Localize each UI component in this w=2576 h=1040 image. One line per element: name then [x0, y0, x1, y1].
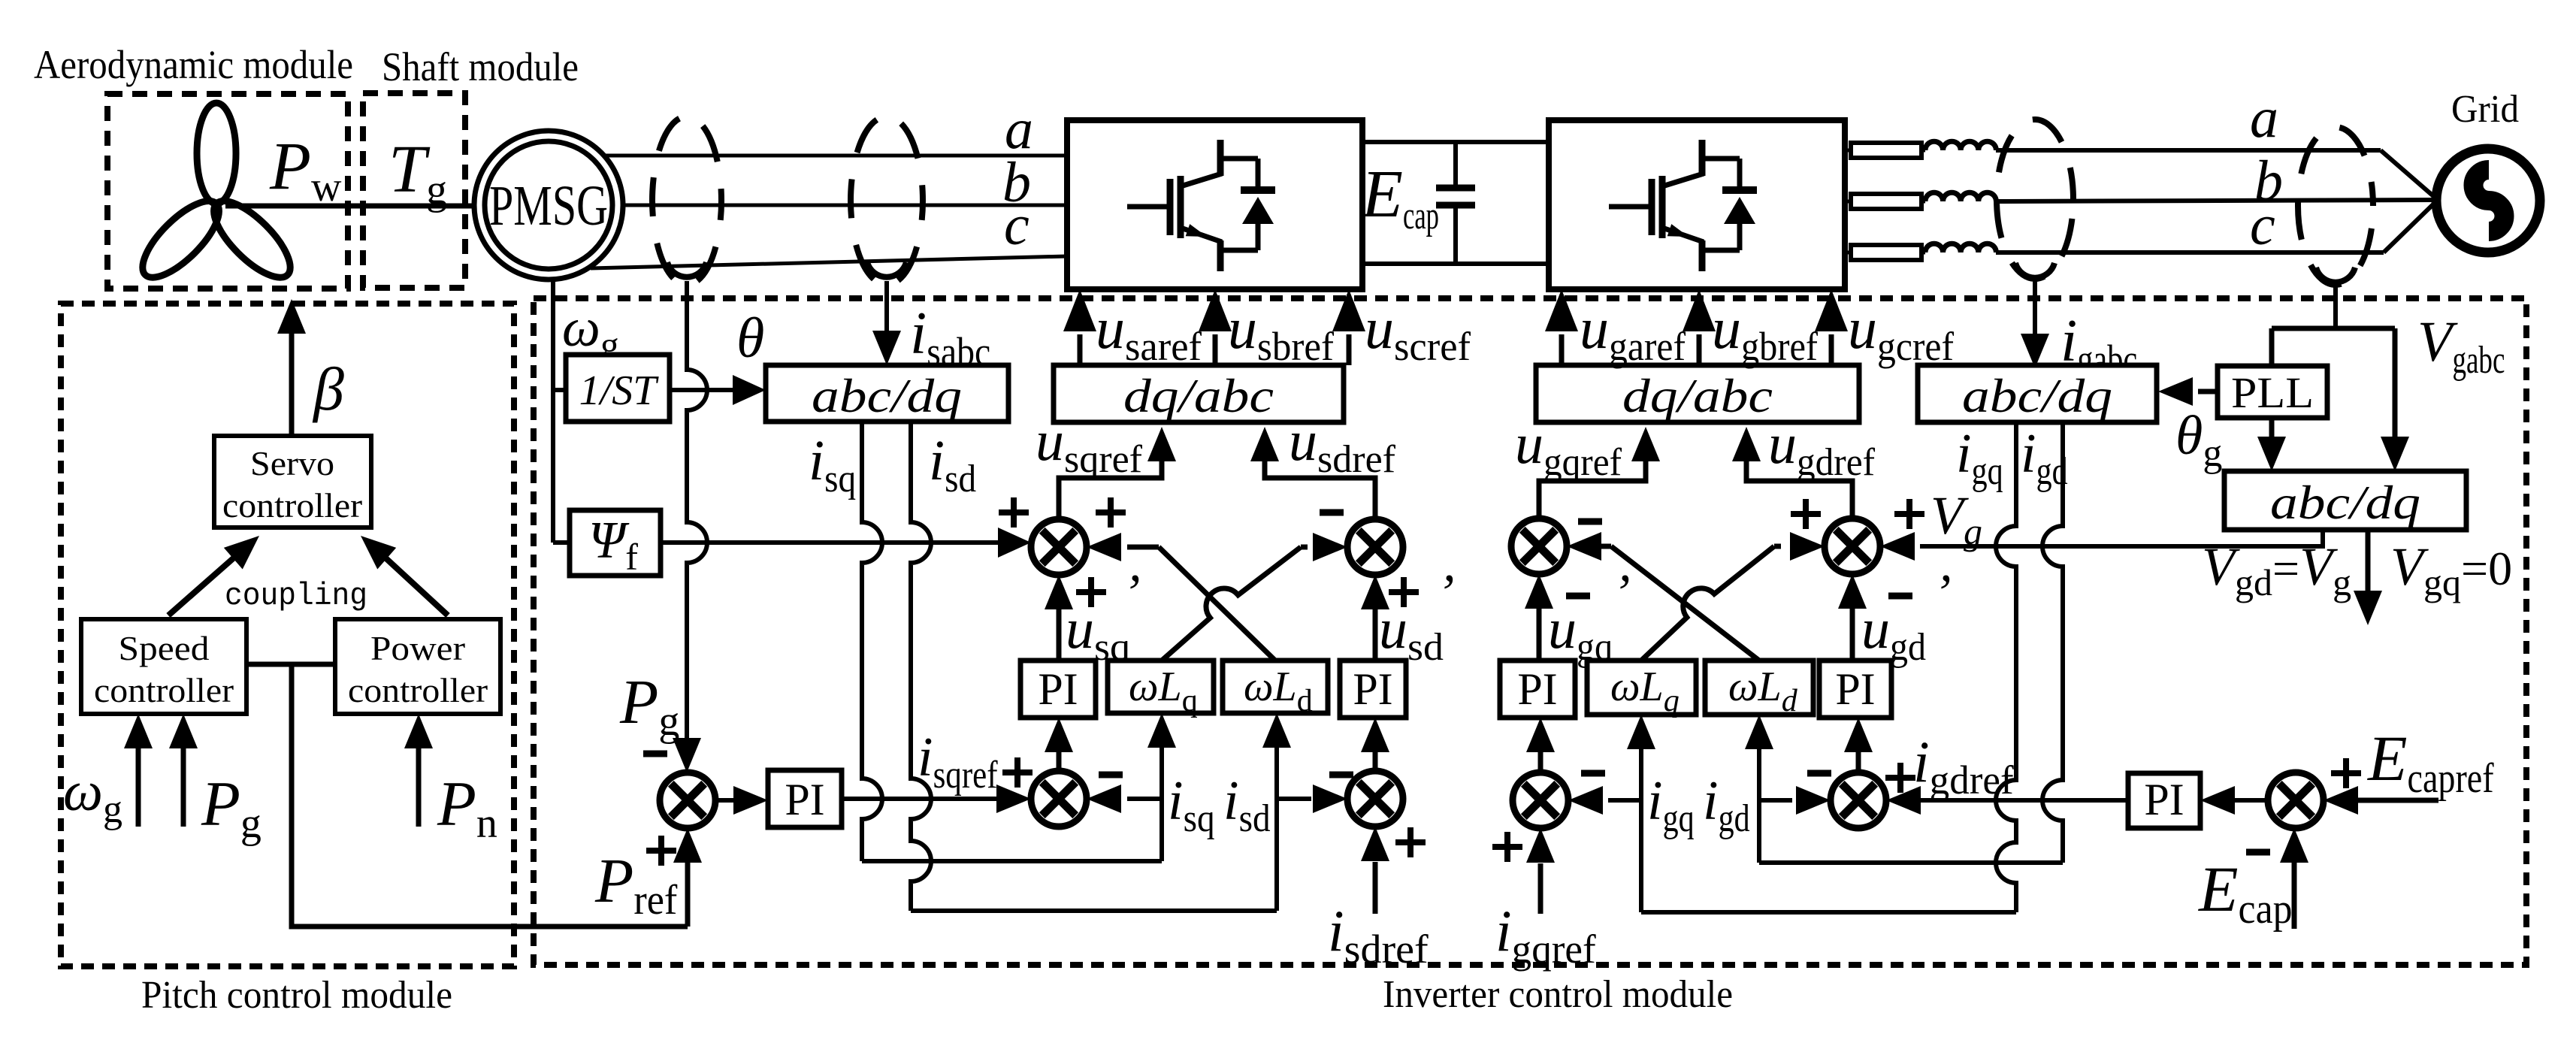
arrow V_gq output — [2354, 530, 2382, 625]
label Aerodynamic module — [34, 42, 353, 87]
svg-text:PMSG: PMSG — [489, 174, 608, 237]
wire u_gdref — [1732, 427, 1852, 518]
phase wire c (machine side) — [591, 256, 1067, 268]
svg-text:PI: PI — [1353, 664, 1392, 714]
arrow Pn into power controller — [404, 714, 433, 827]
label Pg input — [201, 769, 262, 847]
svg-text:Inverter control module: Inverter control module — [1383, 973, 1733, 1016]
svg-text:Pitch control module: Pitch control module — [141, 974, 452, 1017]
svg-text:PI: PI — [1038, 664, 1078, 714]
label V_gq = 0 — [2390, 537, 2512, 603]
label i_sd — [929, 429, 976, 500]
cross-coupling wire omega L_d to q-axis junction — [1087, 533, 1275, 661]
current sensor ellipse 2 (machine, i_sabc) — [851, 116, 923, 285]
IGBT symbol (grid converter) — [1609, 140, 1757, 271]
inductor La — [1925, 141, 1996, 150]
label i_sabc — [910, 301, 990, 374]
minus sign (omega L_q input) — [1320, 509, 1344, 516]
svg-text:dq/abc: dq/abc — [1123, 369, 1274, 422]
label V_gabc — [2417, 310, 2505, 382]
label i_gq (from transform) — [1956, 423, 2003, 493]
label i_gq (feedback) — [1647, 770, 1695, 840]
summing junction power error — [660, 772, 715, 828]
shaft module dashed box — [363, 93, 465, 288]
label u'_sd — [1379, 597, 1444, 669]
label a (grid) — [2250, 86, 2278, 150]
plus sign (i_sdref input) — [1395, 827, 1426, 857]
svg-text:PI: PI — [785, 775, 824, 824]
svg-text:PI: PI — [1835, 664, 1875, 714]
wire u_gqref — [1539, 427, 1660, 518]
plus sign (Psi_f input) — [999, 497, 1029, 528]
label u_sdref — [1289, 410, 1396, 481]
wire Pg measurement down — [687, 281, 707, 752]
plus sign (omega L_q input grid) — [1791, 499, 1821, 529]
svg-text:1/ST: 1/ST — [579, 367, 660, 414]
summing junction u_gq (grid q-axis) — [1511, 518, 1567, 574]
svg-text:Vgd=Vg: Vgd=Vg — [2202, 537, 2351, 603]
wire i_sd — [911, 422, 1277, 911]
svg-text:PLL: PLL — [2231, 368, 2314, 417]
label Shaft module — [382, 44, 579, 89]
label Grid — [2451, 88, 2519, 131]
label Pw — [269, 129, 342, 210]
block omega L_d (machine) — [1223, 661, 1328, 718]
block abc/dq (machine) — [766, 365, 1008, 422]
wire V_g to u_gd junction — [1880, 530, 2323, 561]
arrow u_scref to converter — [1332, 289, 1365, 365]
plus sign (i_gdref input) — [1885, 763, 1915, 793]
IGBT symbol (machine converter) — [1127, 140, 1275, 271]
arrow V_gabc down to abc/dq 2 — [2381, 334, 2409, 471]
capacitor Ecap — [1436, 142, 1475, 264]
label c (grid) — [2250, 194, 2275, 257]
wire i_gd from abc/dq — [1759, 422, 2063, 863]
wire i_gdref from PI (Ecap loop) — [1886, 786, 2128, 815]
minus sign (Pg input) — [643, 751, 667, 757]
summing junction u_gd (grid d-axis) — [1825, 518, 1880, 574]
label a — [1005, 98, 1033, 161]
cross-coupling wire omega L_q to d-axis junction — [1162, 533, 1347, 661]
svg-text:Speed: Speed — [119, 629, 210, 667]
label u_scref — [1365, 295, 1471, 369]
block PI (grid q current) — [1500, 661, 1575, 718]
plus sign (V_g input) — [1894, 499, 1924, 529]
block omega L_q (machine) — [1108, 661, 1214, 718]
svg-text:controller: controller — [348, 671, 488, 709]
wire junction to PI (d) — [1361, 718, 1389, 771]
plus sign (i_gqref input) — [1492, 832, 1522, 862]
PMSG generator — [474, 131, 623, 280]
wire theta to abc/dq — [670, 375, 766, 405]
minus sign (i_sd feedback) — [1329, 772, 1353, 778]
svg-text:c: c — [1004, 194, 1029, 257]
svg-text:c: c — [2250, 194, 2275, 257]
label Ecap (feedback) — [2197, 853, 2293, 933]
arrow omega_g into speed controller — [124, 714, 153, 827]
wire power junction to PI — [715, 786, 768, 815]
svg-text:PI: PI — [2144, 775, 2184, 824]
svg-text:’: ’ — [1613, 564, 1630, 622]
plus sign (Ecapref input) — [2331, 758, 2361, 788]
arrow u_gcref to converter — [1815, 289, 1848, 365]
svg-text:controller: controller — [222, 486, 362, 525]
label i_sq (feedback) — [1168, 770, 1215, 840]
summing junction i_sq error — [1031, 771, 1087, 827]
output stub b with resistor Rb — [1845, 194, 1925, 209]
block Psi_f — [570, 510, 661, 578]
svg-text:Grid: Grid — [2451, 88, 2519, 131]
arrow Pg into speed controller — [169, 714, 198, 827]
wire i_gd up to omega L_d (grid) — [1745, 715, 1773, 863]
wire a to grid — [1996, 150, 2438, 200]
wire i_sqref to current junction — [842, 785, 1031, 813]
inductor Lb — [1925, 192, 1996, 201]
wire Pref from controllers — [246, 664, 688, 927]
wire PMSG speed to 1/ST and Psi_f — [553, 280, 570, 543]
label Pg — [619, 667, 679, 745]
svg-text:a: a — [2250, 86, 2278, 150]
summing junction u_sd (machine d-axis) — [1347, 519, 1403, 575]
label u_gdref — [1768, 413, 1876, 484]
label u_sbref — [1228, 295, 1334, 369]
wire junction to PI (grid d) — [1844, 718, 1873, 772]
speed controller box — [81, 619, 246, 714]
label b — [1002, 151, 1031, 214]
wire V_gabc down — [2333, 286, 2338, 328]
DC bus bottom wire — [1362, 262, 1549, 266]
svg-text:abc/dq: abc/dq — [812, 369, 962, 422]
label u'_sq — [1066, 597, 1130, 669]
svg-text:controller: controller — [94, 671, 234, 709]
wire i_sd up to omega L_d — [1262, 713, 1291, 911]
label V_g — [1930, 485, 1982, 552]
arrow u_saref to converter — [1063, 289, 1096, 365]
svg-text:coupling: coupling — [225, 578, 367, 614]
label u_gcref — [1848, 295, 1954, 369]
block dq/abc (grid) — [1536, 365, 1859, 422]
inverter control module dashed box — [534, 298, 2526, 965]
label u_saref — [1096, 295, 1202, 369]
inductor Lc — [1925, 243, 1996, 252]
block PLL — [2218, 366, 2327, 418]
wire b to grid — [1996, 200, 2436, 201]
wire i_gd feedback into junction — [1759, 786, 1831, 815]
summing junction i_gq error — [1513, 772, 1568, 828]
label i_gqref — [1495, 898, 1596, 972]
wire i_gq from abc/dq — [1641, 422, 2016, 912]
wire PLL to abc/dq — [2158, 377, 2218, 406]
svg-text:β: β — [312, 355, 344, 423]
arrow Ecap feedback — [2280, 828, 2308, 929]
minus sign (Ecap feedback) — [2246, 849, 2270, 856]
minus sign and prime (u'_gq input) — [1566, 564, 1630, 622]
wire PI to u_sd junction — [1361, 575, 1389, 661]
phase wire a (machine side) — [604, 154, 1067, 158]
label u_gqref — [1515, 413, 1622, 484]
label u_garef — [1580, 295, 1686, 369]
wire Ecapref input — [2324, 786, 2438, 815]
block omega L_d (grid) — [1705, 661, 1813, 718]
svg-text:Servo: Servo — [250, 444, 334, 482]
label b (grid) — [2254, 150, 2283, 213]
plus sign and prime (u'_sq input) — [1076, 564, 1140, 622]
plus sign (i_sqref input) — [1002, 757, 1033, 788]
label i_gdref — [1913, 729, 2014, 803]
arrow u_gbref to converter — [1683, 289, 1716, 365]
label beta — [312, 355, 344, 423]
label u'_gd — [1861, 597, 1926, 669]
output stub c with resistor Rc — [1845, 245, 1925, 260]
svg-text:’: ’ — [1934, 564, 1951, 622]
phase wire b (machine side) — [623, 204, 1067, 207]
minus sign (i_sq feedback) — [1099, 772, 1123, 778]
label i_sd (feedback) — [1223, 770, 1271, 840]
svg-text:’: ’ — [1123, 564, 1140, 622]
machine-side converter box — [1067, 120, 1362, 289]
summing junction Ecap error — [2268, 772, 2324, 828]
svg-text:Shaft module: Shaft module — [382, 44, 579, 89]
wire junction to PI (q) — [1045, 718, 1073, 771]
summing junction i_sd error — [1347, 771, 1403, 827]
label Pref — [594, 846, 678, 924]
label u'_gq — [1548, 597, 1613, 669]
svg-text:Power: Power — [370, 629, 465, 667]
cross-coupling wire omega L_d to q-axis junction (grid) — [1567, 532, 1759, 661]
arrow Pg into power junction — [673, 738, 701, 772]
wire Psi_f to multiplier — [661, 528, 1031, 558]
wire c to grid — [1996, 200, 2438, 252]
label omega_g input — [63, 760, 122, 831]
block omega L_q (grid) — [1587, 661, 1696, 718]
block PI (machine q current) — [1020, 661, 1096, 718]
wire i_sq — [862, 422, 1162, 861]
arrow PLL down to abc/dq 2 — [2257, 418, 2286, 471]
pitch control module dashed box — [61, 304, 514, 966]
block PI (Ecap loop) — [2128, 773, 2200, 828]
wire i_gabc down — [2021, 280, 2049, 368]
label i_sq — [809, 429, 856, 500]
grid source circle — [2436, 149, 2540, 252]
grid-side converter box — [1549, 120, 1845, 289]
plus sign (Pref input) — [646, 836, 676, 866]
svg-text:Aerodynamic module: Aerodynamic module — [34, 42, 353, 87]
block PI (grid d current) — [1819, 661, 1891, 718]
block abc/dq (grid) — [1918, 365, 2157, 422]
voltage sensor ellipse (grid, V_gabc) — [2298, 127, 2373, 285]
wire Ecap junction to PI — [2200, 786, 2268, 815]
block PI (machine d current) — [1340, 661, 1406, 718]
DC bus top wire — [1362, 140, 1549, 144]
label Ecap — [1360, 157, 1439, 237]
label Ecapref — [2366, 722, 2494, 802]
label i_sdref — [1328, 898, 1429, 972]
block dq/abc (machine) — [1054, 365, 1344, 422]
wire junction to PI (grid q) — [1526, 718, 1555, 772]
wire PI to u_sq junction — [1045, 575, 1073, 661]
svg-text:θ: θ — [736, 307, 764, 370]
svg-text:’: ’ — [1437, 564, 1454, 622]
block abc/dq (voltage) — [2224, 471, 2466, 530]
arrow u_garef to converter — [1545, 289, 1578, 365]
wire i_sq up to omega L_q — [1147, 713, 1176, 861]
minus sign (i_gd feedback) — [1807, 770, 1831, 777]
current sensor ellipse (grid, i_gabc) — [1997, 119, 2073, 279]
label V_gd = V_g — [2202, 537, 2351, 603]
output stub a with resistor Ra — [1845, 143, 1925, 158]
label i_sqref — [918, 727, 998, 797]
wire i_gq feedback into junction — [1568, 786, 1641, 815]
svg-text:PI: PI — [1517, 664, 1557, 714]
summing junction i_gd error — [1831, 772, 1886, 828]
label theta_g — [2175, 405, 2222, 475]
minus sign (i_gq feedback) — [1581, 770, 1605, 777]
label u_sqref — [1036, 410, 1143, 481]
power controller box — [335, 619, 500, 714]
shaft wire — [225, 204, 476, 209]
wire i_sd feedback into junction — [1277, 785, 1347, 813]
block 1/ST — [566, 355, 670, 422]
plus sign and prime (u'_sd input) — [1389, 564, 1454, 622]
wire V_gabc splitter — [2272, 328, 2395, 366]
plus sign (omega L_d input) — [1096, 497, 1126, 528]
summing junction u_sq (machine q-axis) — [1031, 519, 1087, 575]
arrow i_gqref input — [1526, 828, 1555, 914]
wire PI to u_gq junction — [1525, 574, 1553, 661]
wire u_sdref — [1250, 427, 1375, 519]
svg-text:abc/dq: abc/dq — [1962, 369, 2112, 422]
coupling arrow from speed controller — [168, 536, 259, 615]
label i_gabc — [2060, 308, 2137, 382]
arrow u_sbref to converter — [1199, 289, 1232, 365]
label Pn input — [437, 769, 497, 847]
label i_gd (from transform) — [2021, 423, 2068, 493]
label u_gbref — [1712, 295, 1818, 369]
svg-text:dq/abc: dq/abc — [1622, 369, 1773, 422]
label theta — [736, 307, 764, 370]
cross-coupling wire omega L_q to d-axis junction (grid) — [1641, 532, 1825, 661]
label Tg — [389, 132, 447, 213]
wire beta to aerodynamic module — [277, 299, 306, 436]
block PI (power loop) — [768, 770, 842, 827]
svg-text:abc/dq: abc/dq — [2270, 476, 2420, 529]
wire PI to u_gd junction — [1838, 574, 1867, 661]
wire u_sqref — [1059, 427, 1176, 519]
label Pitch control module — [141, 974, 452, 1017]
servo controller box — [214, 436, 371, 528]
wire i_gq up to omega L_q (grid) — [1627, 715, 1655, 912]
minus sign (omega L_d input grid) — [1578, 518, 1602, 525]
label i_gd (feedback) — [1703, 770, 1750, 840]
label Inverter control module — [1383, 973, 1733, 1016]
label c — [1004, 194, 1029, 257]
wind turbine blades — [132, 103, 301, 289]
aerodynamic module dashed box — [107, 94, 348, 289]
arrow Pref into power junction — [673, 828, 702, 927]
arrow i_sdref input — [1361, 827, 1389, 914]
label coupling — [225, 578, 367, 614]
wire i_sq feedback into junction — [1087, 785, 1162, 813]
current sensor ellipse 1 (machine) — [652, 116, 721, 285]
wire i_sabc down — [872, 281, 901, 365]
minus sign and prime (u'_gd input) — [1888, 564, 1951, 622]
label omega_g — [562, 298, 619, 366]
coupling arrow from power controller — [361, 536, 448, 615]
